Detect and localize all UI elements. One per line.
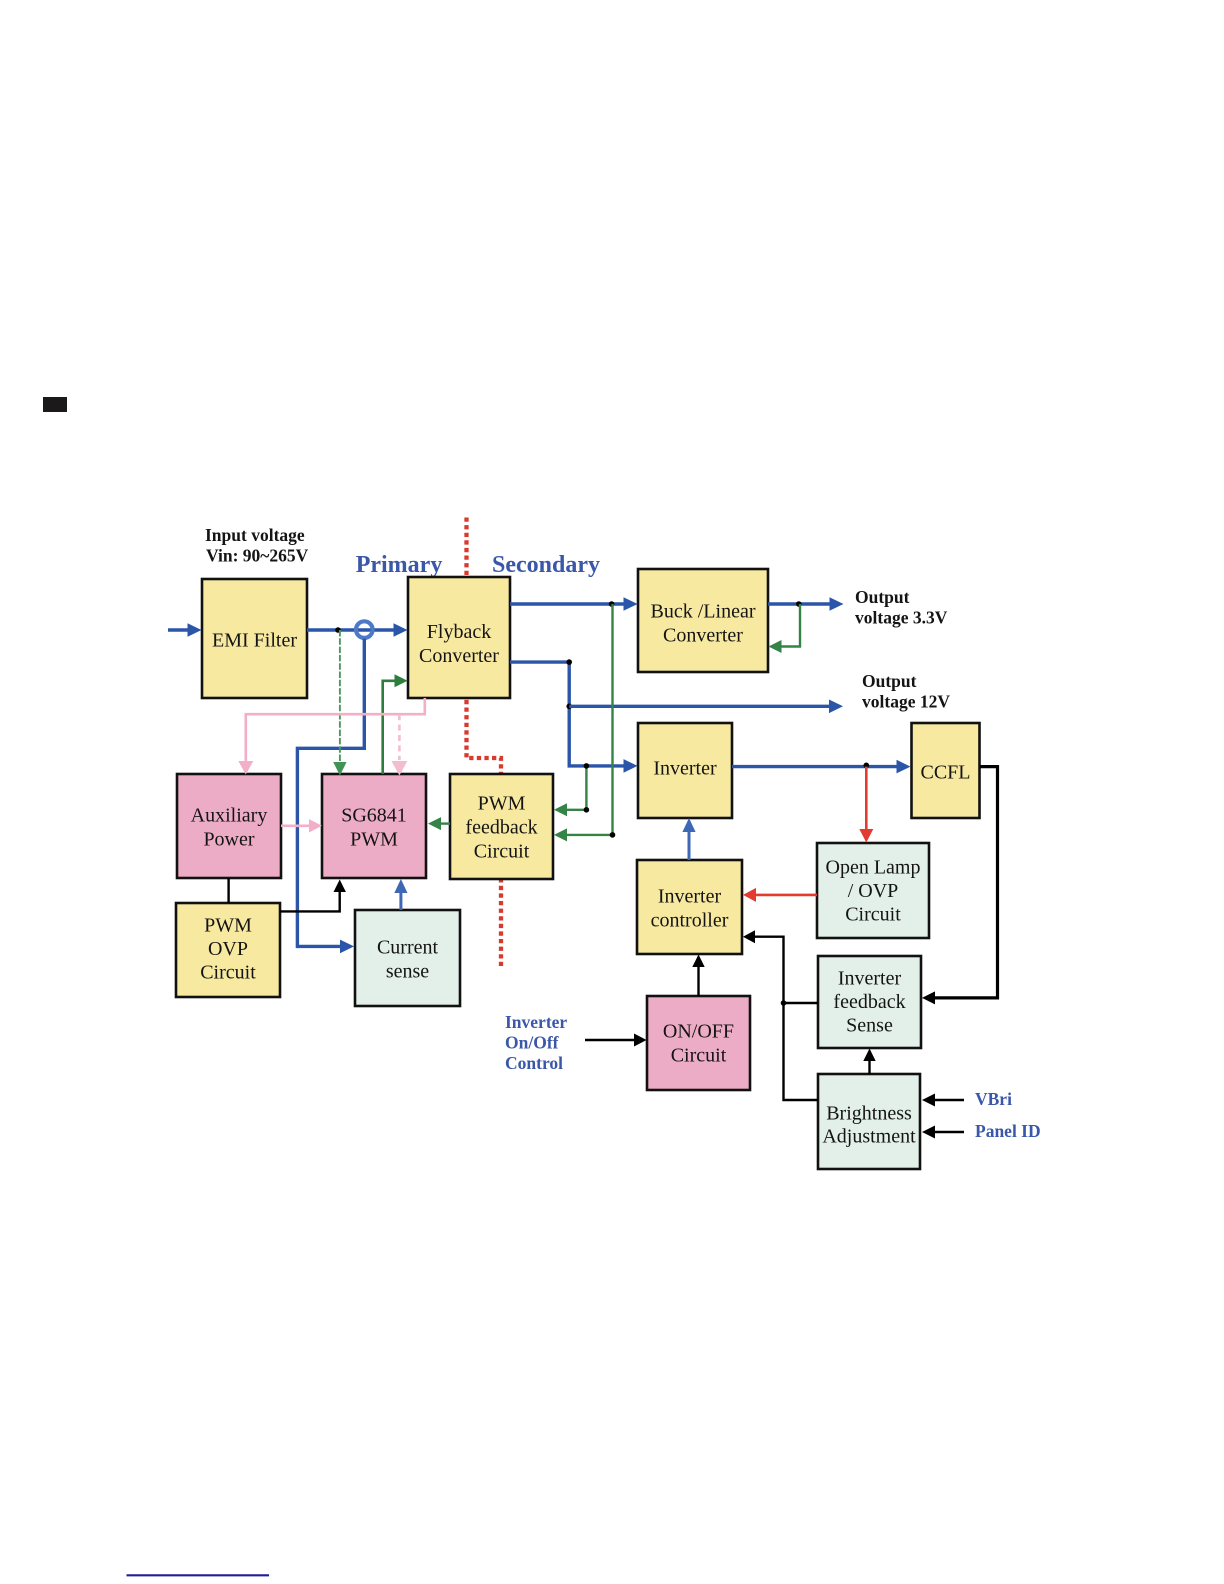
svg-text:VBri: VBri <box>975 1089 1012 1109</box>
svg-text:Inverter: Inverter <box>505 1012 567 1032</box>
wire Flyback 12V rail down to Inverter <box>510 662 638 773</box>
svg-text:Panel ID: Panel ID <box>975 1121 1041 1141</box>
svg-text:Current: Current <box>377 937 439 959</box>
svg-text:CCFL: CCFL <box>920 762 970 784</box>
svg-text:Primary: Primary <box>356 552 443 578</box>
wire Flyback aux winding to Auxiliary Power (pink) <box>238 698 424 775</box>
wire Inverter controller to Inverter <box>682 818 695 860</box>
wire Inverter On/Off Control input <box>585 1034 647 1047</box>
svg-text:Control: Control <box>505 1053 563 1073</box>
svg-text:Input voltage: Input voltage <box>205 525 305 545</box>
node label Output voltage 12V <box>862 671 950 712</box>
block Inverter <box>638 723 732 818</box>
wire PWM feedback Circuit to SG6841 (green) <box>428 817 450 830</box>
svg-text:Circuit: Circuit <box>474 841 530 863</box>
wire Inverter to CCFL <box>732 760 911 774</box>
wire Brightness Adjustment to Inverter feedback Sense <box>863 1049 875 1075</box>
svg-text:Inverter: Inverter <box>658 886 722 908</box>
svg-text:Circuit: Circuit <box>671 1045 727 1067</box>
block Flyback Converter <box>408 577 510 698</box>
block Auxiliary Power <box>177 774 281 878</box>
node label Output voltage 3.3V <box>855 587 948 628</box>
svg-text:ON/OFF: ON/OFF <box>663 1021 734 1043</box>
wire Open Lamp / OVP to Inverter controller (red) <box>743 888 817 902</box>
wire Auxiliary Power to PWM OVP Circuit <box>227 878 229 903</box>
wire aux winding to SG6841 (dashed pink) <box>391 714 407 775</box>
wire current-sense transformer to Current sense block <box>297 639 364 954</box>
svg-text:Vin: 90~265V: Vin: 90~265V <box>206 546 309 566</box>
svg-text:Auxiliary: Auxiliary <box>191 805 268 827</box>
svg-text:SG6841: SG6841 <box>341 805 407 827</box>
block Open Lamp / OVP Circuit <box>817 843 929 938</box>
wire CCFL rail to Open Lamp / OVP (red) <box>859 767 873 843</box>
wire ON/OFF Circuit to Inverter controller <box>692 955 704 997</box>
svg-text:Open Lamp: Open Lamp <box>826 857 921 879</box>
current transformer symbol on input wire <box>356 621 373 638</box>
block CCFL <box>912 723 980 818</box>
svg-text:Output: Output <box>855 587 910 607</box>
block ON/OFF Circuit <box>647 996 750 1090</box>
node label Secondary <box>492 552 600 578</box>
svg-text:On/Off: On/Off <box>505 1033 559 1053</box>
junction at Flyback rail corner <box>566 659 572 665</box>
wire Auxiliary Power to SG6841 (pink) <box>281 819 322 832</box>
wire Flyback to Buck /Linear Converter <box>510 597 638 611</box>
block Brightness Adjustment <box>818 1074 920 1169</box>
wire Panel ID input <box>922 1126 964 1139</box>
block PWM feedback Circuit <box>450 774 553 879</box>
node label VBri <box>975 1089 1012 1109</box>
block Current sense <box>355 910 460 1006</box>
block SG6841 PWM <box>322 774 426 878</box>
node label Inverter On/Off Control <box>505 1012 567 1073</box>
node label Input voltage Vin: 90~265V <box>205 525 309 566</box>
block Inverter controller <box>637 860 742 954</box>
wire Buck output voltage 3.3V <box>768 597 844 611</box>
svg-text:feedback: feedback <box>465 817 537 839</box>
junction at green 12V sense corner <box>584 807 590 813</box>
wire 3.3V rail sense to PWM feedback Circuit (green) <box>554 604 613 841</box>
svg-text:PWM: PWM <box>478 793 526 815</box>
wire 12V rail sense to PWM feedback Circuit (green) <box>554 766 586 816</box>
wire line sense from input node to SG6841 (dotted green) <box>333 630 346 776</box>
svg-text:Converter: Converter <box>419 645 499 667</box>
block EMI Filter <box>202 579 307 698</box>
wire Buck local feedback (green) <box>769 604 801 653</box>
footer rule <box>127 1574 270 1576</box>
svg-text:Output: Output <box>862 671 917 691</box>
block Buck /Linear Converter <box>638 569 768 672</box>
svg-text:feedback: feedback <box>833 991 905 1013</box>
wire CCFL return to Inverter feedback Sense <box>922 767 998 1005</box>
isolation barrier dashed line (Primary/Secondary) <box>467 518 502 967</box>
svg-text:voltage 3.3V: voltage 3.3V <box>855 608 948 628</box>
wire PWM OVP Circuit to SG6841 <box>280 880 346 912</box>
junction at green sense corner <box>610 832 616 838</box>
svg-text:controller: controller <box>651 910 729 932</box>
svg-text:PWM: PWM <box>204 915 252 937</box>
wire VBri input <box>922 1094 964 1107</box>
junction on feedback bus <box>781 1000 787 1006</box>
svg-text:EMI Filter: EMI Filter <box>212 630 297 652</box>
svg-text:Circuit: Circuit <box>200 962 256 984</box>
junction on EMI-Flyback wire <box>335 627 341 633</box>
junction on CCFL wire <box>864 763 870 769</box>
junction on Inverter supply wire <box>584 763 590 769</box>
block PWM OVP Circuit <box>176 903 280 997</box>
svg-text:Brightness: Brightness <box>826 1103 912 1125</box>
wire EMI Filter to Flyback Converter <box>307 623 408 637</box>
junction on 3.3V output wire <box>796 601 802 607</box>
svg-text:Sense: Sense <box>846 1015 893 1037</box>
wire SG6841 PWM drive to Flyback (green) <box>383 674 408 774</box>
svg-text:Buck /Linear: Buck /Linear <box>651 601 756 623</box>
wire Output voltage 12V <box>569 700 843 714</box>
svg-text:OVP: OVP <box>208 938 248 960</box>
block Inverter feedback Sense <box>818 956 921 1048</box>
svg-text:/ OVP: / OVP <box>848 880 899 902</box>
svg-text:Power: Power <box>203 829 254 851</box>
svg-text:voltage 12V: voltage 12V <box>862 692 950 712</box>
svg-text:PWM: PWM <box>350 829 398 851</box>
svg-text:Secondary: Secondary <box>492 552 600 578</box>
wire feedback bus to Inverter controller <box>743 930 818 1100</box>
svg-text:Circuit: Circuit <box>845 904 901 926</box>
svg-text:sense: sense <box>386 961 429 983</box>
svg-text:Inverter: Inverter <box>838 968 902 990</box>
wire feedback bus branch to Inverter feedback Sense <box>784 1002 819 1004</box>
junction on Buck input wire <box>609 601 615 607</box>
svg-text:Flyback: Flyback <box>427 621 491 643</box>
node label Panel ID <box>975 1121 1041 1141</box>
wire AC input into EMI Filter <box>168 623 202 637</box>
svg-text:Converter: Converter <box>663 625 743 647</box>
svg-text:Adjustment: Adjustment <box>822 1126 916 1148</box>
page marker bar (revision black rectangle) <box>43 397 67 412</box>
junction at 12V branch <box>566 704 572 710</box>
svg-text:Inverter: Inverter <box>653 758 717 780</box>
node label Primary <box>356 552 443 578</box>
wire Current sense to SG6841 PWM <box>394 879 407 910</box>
